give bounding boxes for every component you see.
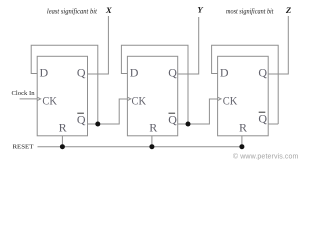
svg-text:Q: Q [258, 65, 267, 79]
svg-text:RESET: RESET [13, 144, 34, 151]
svg-text:CK: CK [42, 94, 57, 108]
svg-text:CK: CK [132, 94, 147, 108]
svg-text:© www.petervis.com: © www.petervis.com [233, 152, 299, 160]
svg-text:Q: Q [77, 65, 86, 79]
svg-text:Clock In: Clock In [12, 90, 36, 97]
svg-text:most significant bit: most significant bit [226, 7, 274, 15]
svg-text:CK: CK [223, 94, 238, 108]
svg-text:D: D [130, 66, 139, 80]
svg-text:D: D [220, 66, 229, 80]
svg-text:Q: Q [77, 112, 86, 126]
svg-text:R: R [149, 120, 157, 134]
svg-text:R: R [59, 120, 67, 134]
svg-text:D: D [40, 66, 49, 80]
svg-text:Q: Q [168, 65, 177, 79]
svg-text:Q: Q [258, 111, 267, 125]
svg-text:R: R [239, 120, 247, 134]
svg-text:Y: Y [197, 5, 204, 15]
svg-text:X: X [105, 5, 113, 15]
svg-text:Z: Z [285, 5, 292, 15]
svg-text:least significant bit: least significant bit [47, 7, 98, 15]
svg-text:Q: Q [168, 112, 177, 126]
